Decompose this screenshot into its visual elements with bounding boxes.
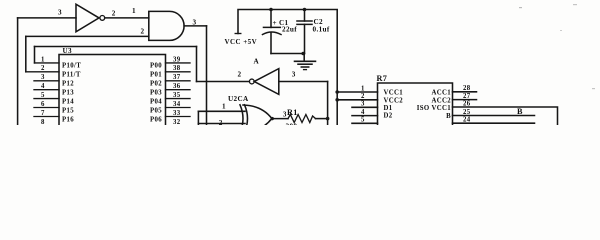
U3 left pin 4 (34, 89, 59, 91)
node dot R1 output (326, 117, 330, 121)
svg-text:0.1uf: 0.1uf (313, 26, 330, 34)
svg-text:P02: P02 (150, 81, 162, 88)
U3 right pin 33 P06 (166, 116, 191, 118)
wire R7 pin 27 (453, 99, 477, 101)
svg-text:A: A (254, 58, 260, 66)
svg-text:P15: P15 (62, 107, 74, 114)
speck noise (519, 7, 522, 8)
svg-text:P10/T: P10/T (62, 63, 81, 70)
wire net B vertical drop (196, 47, 198, 82)
svg-text:8: 8 (41, 119, 45, 125)
U3 left pin 3 (34, 80, 59, 82)
svg-text:4: 4 (361, 109, 365, 116)
wire R7 pin 1 (337, 91, 377, 93)
svg-text:ISO VCC1: ISO VCC1 (417, 105, 451, 112)
chip U3 box (59, 55, 166, 130)
svg-text:R1: R1 (287, 108, 298, 117)
node dot ground bus (301, 52, 305, 56)
U3 left pin 1 (35, 62, 60, 64)
wire AND output (184, 25, 206, 27)
node dot U2CA output (271, 117, 274, 120)
wire AND input 2 (26, 35, 149, 37)
wire riser from U3 pin 1 (34, 47, 36, 63)
svg-text:1: 1 (361, 85, 365, 92)
svg-text:P12: P12 (62, 81, 74, 88)
wire net B horizontal from U3 pin1 riser (35, 46, 197, 48)
svg-text:ACC1: ACC1 (431, 90, 451, 97)
wire R7 pin 24 (453, 122, 535, 124)
U3 left pin 2 (26, 71, 59, 73)
svg-text:32: 32 (173, 119, 181, 125)
svg-text:VCC1: VCC1 (384, 90, 404, 97)
node dot R7 pin1 (335, 90, 339, 94)
node dot C1 top (269, 8, 273, 12)
wire R7 pin 2 (337, 99, 377, 101)
wire left vertical bus (17, 18, 19, 125)
capacitor C2 (304, 10, 306, 22)
svg-text:2: 2 (361, 93, 365, 100)
svg-text:37: 37 (173, 74, 181, 81)
svg-text:7: 7 (41, 110, 45, 117)
svg-text:26: 26 (463, 100, 471, 107)
wire R1 to vertical (316, 118, 328, 120)
wire R7 pin 28 (453, 91, 477, 93)
svg-text:U2CA: U2CA (228, 95, 249, 103)
svg-text:200: 200 (286, 123, 298, 126)
U3 right pin 37 P02 (166, 80, 191, 82)
wire vertical A-input to R1 (327, 82, 329, 126)
AND gate U2 (149, 11, 184, 40)
svg-text:D1: D1 (384, 105, 393, 112)
wire main vertical from AND output down (206, 26, 208, 125)
svg-text:5: 5 (41, 92, 45, 99)
svg-text:35: 35 (173, 92, 181, 99)
svg-text:R7: R7 (377, 74, 388, 83)
svg-text:38: 38 (173, 65, 181, 72)
svg-text:+: + (273, 19, 277, 27)
svg-text:U3: U3 (63, 47, 73, 55)
power VCC +5V (235, 33, 241, 35)
wire U2CA output to R1 (272, 118, 288, 120)
svg-text:P04: P04 (150, 98, 162, 105)
wire U2CA input connector vertical (197, 111, 199, 125)
wire R7 pin 25 net B (453, 115, 535, 117)
svg-text:P16: P16 (62, 116, 74, 123)
svg-text:27: 27 (463, 93, 471, 100)
svg-text:D2: D2 (384, 112, 393, 119)
svg-text:VCC2: VCC2 (384, 97, 404, 104)
gate U2CA body (240, 105, 248, 132)
svg-text:25: 25 (463, 109, 471, 116)
svg-text:34: 34 (173, 101, 181, 108)
wire U2CA input 1 stub (198, 110, 245, 112)
wire inverter A input (279, 81, 328, 83)
U3 right pin 34 P05 (166, 107, 191, 109)
U3 right pin 38 P01 (166, 71, 191, 73)
wire R7 pin 5 (352, 122, 378, 124)
wire U2CA input 2 stub (198, 123, 245, 125)
node dot R7 pin2 (335, 98, 339, 102)
svg-text:C2: C2 (314, 18, 324, 26)
U3 right pin 36 P03 (166, 89, 191, 91)
node dot C2 top (303, 8, 307, 12)
svg-text:3: 3 (193, 19, 197, 27)
U3 left pin 6 (34, 107, 59, 109)
svg-text:ACC2: ACC2 (431, 97, 451, 104)
U3 left pin 5 (34, 98, 59, 100)
wire R7 pin 26 net down (453, 107, 558, 125)
svg-text:P03: P03 (150, 90, 162, 97)
U3 right pin 35 P04 (166, 98, 191, 100)
svg-text:P01: P01 (150, 72, 162, 79)
svg-text:B: B (446, 113, 451, 120)
inverter U1 (76, 4, 99, 32)
svg-text:P00: P00 (150, 63, 162, 70)
svg-text:28: 28 (463, 85, 471, 92)
wire inverter input net (18, 17, 76, 19)
svg-text:3: 3 (41, 74, 45, 81)
svg-text:22uf: 22uf (282, 26, 297, 34)
svg-text:4: 4 (41, 83, 45, 90)
wire R7 pin 4 (352, 115, 378, 117)
ground (303, 54, 305, 62)
svg-text:5: 5 (361, 117, 365, 124)
svg-text:3: 3 (58, 8, 62, 16)
svg-text:B: B (517, 107, 523, 116)
svg-text:P06: P06 (150, 116, 162, 123)
U3 left pin 7 (34, 116, 59, 118)
svg-text:P13: P13 (62, 90, 74, 97)
svg-text:P05: P05 (150, 107, 162, 114)
wire R7 pin 3 (352, 106, 378, 108)
svg-text:36: 36 (173, 83, 181, 90)
wire +5V top bus (238, 10, 337, 126)
svg-text:24: 24 (463, 117, 471, 124)
svg-text:VCC +5V: VCC +5V (225, 38, 258, 46)
svg-text:33: 33 (173, 110, 181, 117)
svg-text:3: 3 (292, 70, 296, 78)
svg-text:P11/T: P11/T (62, 72, 81, 79)
wire capacitor ground bus (271, 53, 305, 55)
svg-text:3: 3 (361, 101, 365, 108)
svg-text:6: 6 (41, 101, 45, 108)
svg-text:1: 1 (222, 102, 226, 110)
wire inverter output to AND input 1 (105, 17, 149, 19)
svg-text:P14: P14 (62, 98, 74, 105)
capacitor C1 (270, 10, 272, 28)
wire AND input 2 vertical to U3 pin 2 (25, 36, 27, 71)
svg-text:2: 2 (41, 65, 45, 72)
wire to inverter A output (197, 81, 250, 83)
svg-text:2: 2 (238, 70, 242, 78)
U3 right pin 39 P00 (166, 62, 191, 64)
svg-text:2: 2 (141, 28, 145, 36)
svg-text:1: 1 (132, 7, 136, 15)
svg-text:39: 39 (173, 56, 181, 63)
svg-text:2: 2 (112, 10, 116, 18)
svg-text:1: 1 (41, 56, 45, 63)
